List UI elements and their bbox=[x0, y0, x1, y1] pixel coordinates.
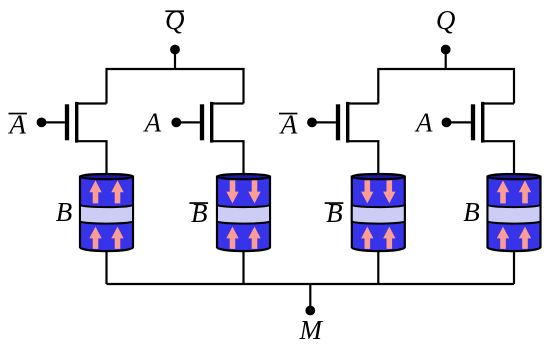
label Bbar MTJ2 bbox=[189, 198, 208, 228]
transistor Q3 bbox=[312, 102, 378, 177]
node A gate dot T4 bbox=[442, 117, 452, 127]
node M dot bbox=[305, 306, 315, 316]
wire MTJ4 to bottom rail bbox=[513, 245, 515, 284]
MTJ cylinder MTJ2 Bbar bbox=[217, 174, 270, 251]
svg-text:M: M bbox=[299, 315, 324, 345]
wire left Qbar rail bbox=[107, 69, 244, 104]
node A gate dot T2 bbox=[171, 117, 181, 127]
wire right Q rail bbox=[378, 69, 514, 104]
wire MTJ1 to bottom rail bbox=[105, 245, 107, 284]
svg-text:A: A bbox=[143, 108, 162, 138]
node Qbar dot bbox=[170, 45, 180, 55]
transistor Q4 bbox=[447, 102, 515, 177]
svg-text:B: B bbox=[56, 197, 73, 227]
svg-text:Q: Q bbox=[436, 5, 456, 35]
svg-text:A: A bbox=[414, 108, 433, 138]
wire M stub bbox=[309, 284, 311, 311]
wire MTJ3 to bottom rail bbox=[377, 245, 379, 284]
wire bottom rail bbox=[107, 283, 515, 285]
node Q dot bbox=[441, 45, 451, 55]
MTJ cylinder MTJ3 Bbar bbox=[352, 174, 405, 251]
transistor Q1 bbox=[42, 102, 107, 177]
label Abar T1 bbox=[8, 110, 27, 140]
label Abar T3 bbox=[279, 110, 298, 140]
node Abar gate dot T3 bbox=[307, 117, 317, 127]
label Qbar bbox=[165, 5, 185, 35]
label Bbar MTJ3 bbox=[325, 198, 344, 228]
node Abar gate dot T1 bbox=[37, 117, 47, 127]
wire Qbar stub bbox=[174, 50, 176, 71]
transistor Q2 bbox=[176, 102, 243, 177]
wire Q stub bbox=[445, 50, 447, 71]
wire MTJ2 to bottom rail bbox=[242, 245, 244, 284]
MTJ cylinder MTJ4 B bbox=[488, 174, 541, 251]
svg-text:B: B bbox=[463, 197, 480, 227]
MTJ cylinder MTJ1 B bbox=[80, 174, 133, 251]
svg-text:Q: Q bbox=[165, 5, 185, 35]
